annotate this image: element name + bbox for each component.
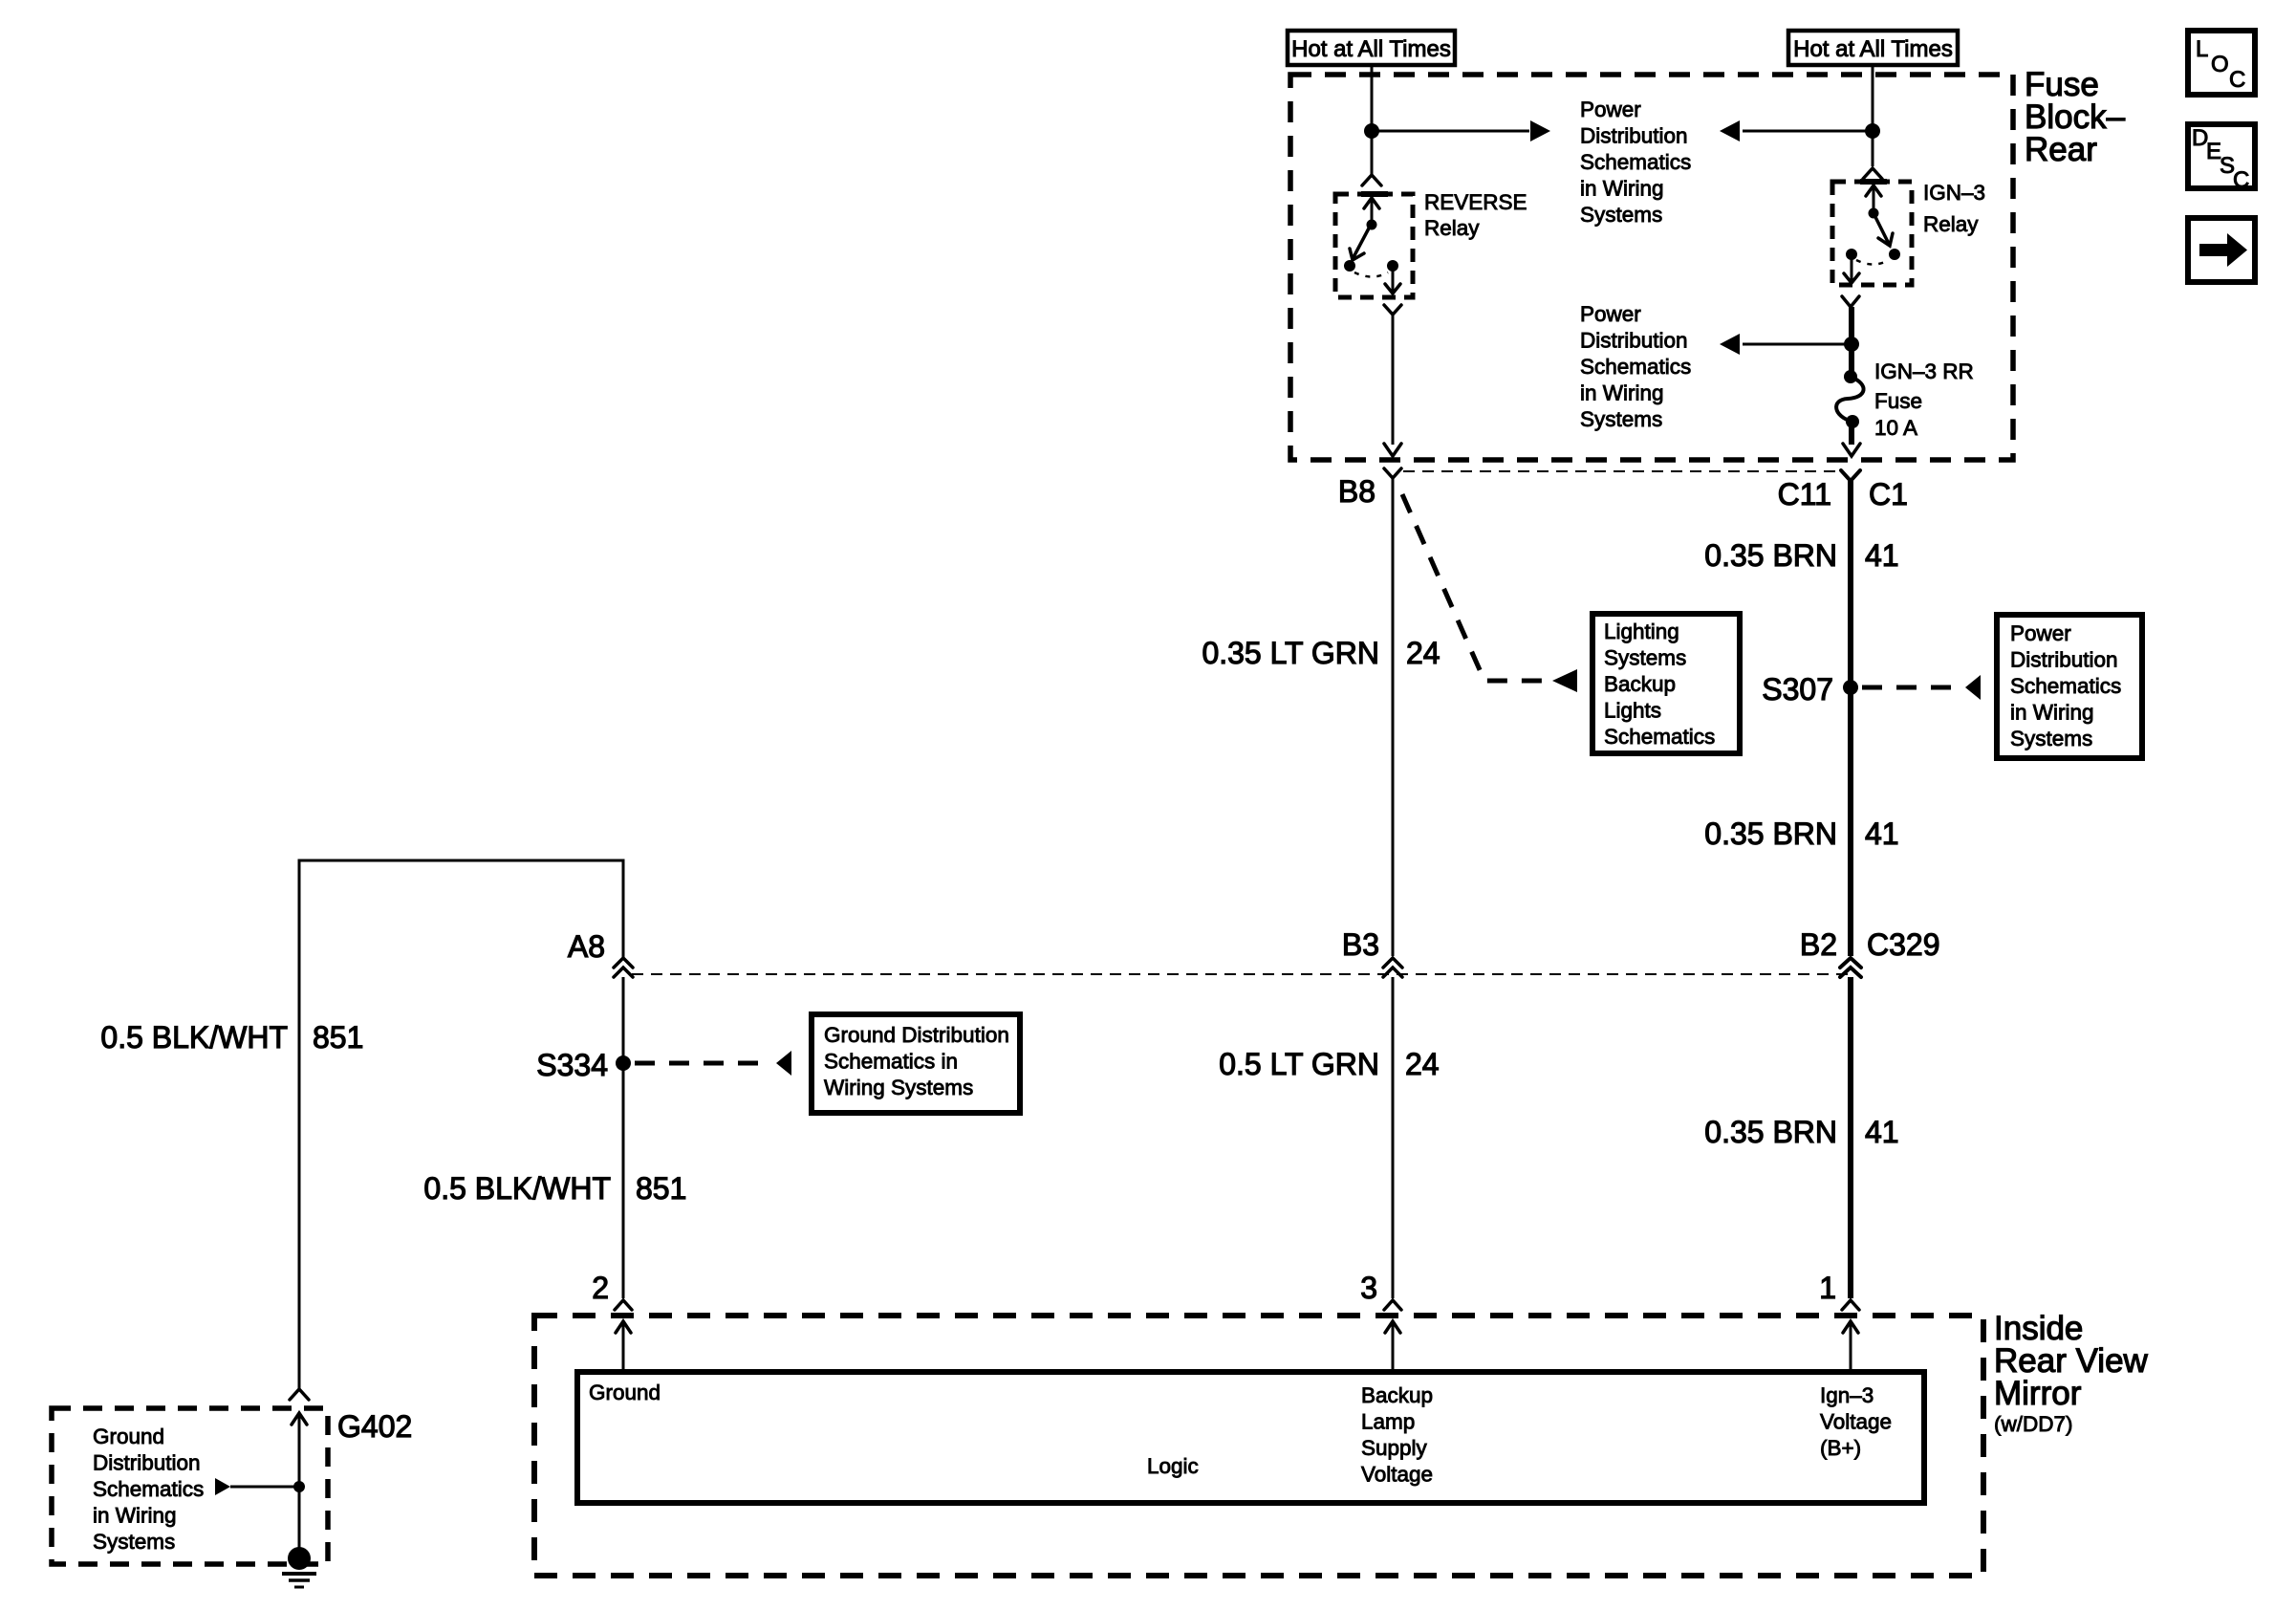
wire dashed leader S307 to Power Distribution box [1862, 685, 1961, 690]
wire leader to Ground Distribution reference text [230, 1486, 299, 1489]
svg-text:B8: B8 [1338, 474, 1375, 509]
svg-text:S307: S307 [1762, 672, 1833, 707]
text Power Distribution Schematics reference 2 [1580, 302, 1691, 431]
node junction at IGN-3 feed [1865, 123, 1880, 139]
svg-text:Systems: Systems [1580, 203, 1662, 227]
svg-text:Mirror: Mirror [1994, 1375, 2082, 1412]
svg-text:Schematics: Schematics [1604, 725, 1715, 749]
svg-text:Logic: Logic [1147, 1454, 1199, 1478]
wire A8 to S334 to pin 2 (0.5 BLK/WHT 851) [622, 977, 625, 1298]
svg-text:Relay: Relay [1923, 212, 1979, 236]
svg-text:IGN–3 RR: IGN–3 RR [1874, 359, 1974, 383]
component Inside Rear View Mirror dashed enclosure [534, 1316, 1983, 1576]
svg-text:41: 41 [1865, 1115, 1899, 1149]
svg-text:Power: Power [1580, 98, 1641, 121]
connector B8 female terminal [1384, 468, 1401, 478]
svg-text:Ground: Ground [93, 1425, 164, 1448]
node junction at reverse feed [1364, 123, 1379, 139]
box mirror internal Logic [577, 1372, 1924, 1503]
fuse block dashed enclosure Fuse Block-Rear [1290, 75, 2013, 460]
text Power Distribution Schematics reference 1 [1580, 98, 1691, 227]
wire pin 3 into mirror logic [1392, 1321, 1395, 1371]
svg-text:0.35 BRN: 0.35 BRN [1704, 538, 1837, 573]
svg-text:Schematics: Schematics [93, 1477, 204, 1501]
connector pin 3 terminal [1384, 1300, 1401, 1310]
svg-text:0.35 BRN: 0.35 BRN [1704, 816, 1837, 851]
connector pin 1 terminal [1842, 1300, 1859, 1310]
box Lighting Systems Backup Lights Schematics [1592, 614, 1740, 753]
svg-text:0.35 LT GRN: 0.35 LT GRN [1202, 636, 1379, 670]
svg-text:(B+): (B+) [1820, 1436, 1861, 1460]
svg-text:Power: Power [1580, 302, 1641, 326]
svg-text:Schematics: Schematics [1580, 150, 1691, 174]
label REVERSE Relay [1424, 190, 1527, 240]
svg-text:REVERSE: REVERSE [1424, 190, 1527, 214]
svg-text:L: L [2196, 36, 2208, 62]
label IGN-3 Relay [1923, 181, 1985, 236]
node splice S307 [1843, 680, 1858, 695]
svg-text:Systems: Systems [1604, 646, 1686, 670]
ground G402 dashed enclosure [52, 1408, 328, 1564]
svg-text:Power: Power [2010, 621, 2071, 645]
svg-text:Schematics in: Schematics in [824, 1050, 958, 1074]
wire pin 2 into mirror logic [622, 1321, 625, 1371]
svg-text:Distribution: Distribution [1580, 124, 1688, 148]
wire REVERSE relay output down to fuse block edge [1392, 315, 1395, 445]
svg-text:C: C [2233, 167, 2249, 193]
wire pin 1 into mirror logic [1850, 1321, 1852, 1371]
svg-text:Supply: Supply [1361, 1436, 1428, 1460]
connector chevron above REVERSE relay [1362, 175, 1381, 185]
svg-text:1: 1 [1819, 1271, 1836, 1305]
legend forward-arrow icon [2188, 218, 2255, 282]
svg-text:41: 41 [1865, 538, 1899, 573]
svg-text:C1: C1 [1869, 477, 1908, 511]
svg-text:0.5 LT GRN: 0.5 LT GRN [1219, 1047, 1379, 1081]
svg-text:B3: B3 [1342, 927, 1379, 962]
wire backup lamp feed B3 to pin 3 (0.5 LT GRN 24) [1392, 977, 1395, 1298]
svg-text:Ign–3: Ign–3 [1820, 1383, 1874, 1407]
svg-text:in Wiring: in Wiring [1580, 381, 1664, 405]
svg-text:Distribution: Distribution [2010, 648, 2118, 672]
relay IGN-3 Relay [1832, 182, 1912, 285]
svg-text:A8: A8 [568, 929, 605, 964]
wire IGN-3 voltage C1 to B2 (0.35 BRN 41) [1848, 481, 1853, 956]
svg-text:C329: C329 [1867, 927, 1940, 962]
svg-text:Systems: Systems [1580, 407, 1662, 431]
svg-text:in Wiring: in Wiring [93, 1504, 177, 1528]
node junction at G402 splice [293, 1481, 305, 1492]
svg-text:Relay: Relay [1424, 216, 1480, 240]
svg-text:O: O [2211, 52, 2229, 77]
svg-text:C: C [2229, 67, 2245, 93]
Hot at All Times box 2 [1788, 31, 1958, 65]
label IGN-3 RR Fuse 10 A [1874, 359, 1974, 440]
svg-text:41: 41 [1865, 816, 1899, 851]
svg-text:Systems: Systems [93, 1530, 175, 1554]
svg-text:Ground Distribution: Ground Distribution [824, 1023, 1009, 1047]
node splice S334 [616, 1055, 631, 1071]
Hot at All Times box 1 [1288, 31, 1455, 65]
svg-text:S334: S334 [536, 1048, 608, 1082]
wire fuse output to fuse block edge [1849, 422, 1854, 445]
connector chevron above G402 [290, 1389, 309, 1400]
ground symbol earth at G402 [282, 1547, 316, 1587]
wire IGN-3 voltage B2 to pin 1 (0.35 BRN 41) [1848, 977, 1853, 1298]
label Fuse Block-Rear [2025, 66, 2126, 168]
svg-text:10 A: 10 A [1874, 416, 1917, 440]
connector C1 female terminal [1841, 470, 1860, 481]
svg-text:851: 851 [313, 1020, 363, 1055]
legend LOC icon [2188, 31, 2255, 95]
box Ground Distribution Schematics in Wiring Systems (S334 ref) [812, 1014, 1020, 1113]
svg-text:(w/DD7): (w/DD7) [1994, 1412, 2073, 1436]
wire IGN-3 relay output down to fuse [1849, 307, 1854, 375]
svg-text:3: 3 [1360, 1271, 1377, 1305]
svg-text:Wiring Systems: Wiring Systems [824, 1076, 973, 1099]
connector Y below REVERSE relay [1384, 305, 1401, 315]
svg-text:Distribution: Distribution [1580, 329, 1688, 353]
svg-text:0.35 BRN: 0.35 BRN [1704, 1115, 1837, 1149]
svg-text:G402: G402 [337, 1409, 412, 1444]
wire branch to Power Distribution reference 2 [1743, 343, 1852, 346]
svg-text:Lighting: Lighting [1604, 620, 1679, 643]
svg-text:Voltage: Voltage [1361, 1463, 1433, 1487]
wire backup lamp feed B8 to B3 (0.35 LT GRN 24) [1392, 478, 1395, 956]
connector B3 double female terminal [1383, 958, 1402, 968]
svg-text:Schematics: Schematics [1580, 355, 1691, 379]
svg-text:Hot at All Times: Hot at All Times [1793, 36, 1953, 62]
svg-text:0.5 BLK/WHT: 0.5 BLK/WHT [100, 1020, 288, 1055]
svg-text:0.5 BLK/WHT: 0.5 BLK/WHT [423, 1171, 611, 1206]
svg-text:IGN–3: IGN–3 [1923, 181, 1985, 205]
svg-text:24: 24 [1405, 1047, 1440, 1081]
svg-text:C11: C11 [1778, 477, 1831, 511]
fuse IGN-3 RR Fuse 10 A [1836, 370, 1863, 428]
svg-text:Rear: Rear [2025, 131, 2097, 168]
wire connector line C329 (thin dashed) [632, 973, 1848, 975]
wire from Hot1 down into REVERSE relay [1371, 65, 1374, 176]
connector Y below IGN-3 relay [1842, 296, 1859, 307]
svg-text:24: 24 [1406, 636, 1440, 670]
wire branch to Power Distribution reference (left top) [1372, 130, 1529, 133]
label Ign-3 Voltage B+ (pin 1) [1820, 1383, 1892, 1460]
wire into G402 with up arrow [298, 1413, 301, 1558]
svg-text:Fuse: Fuse [1874, 389, 1922, 413]
wire from Hot2 down into IGN-3 relay [1872, 65, 1874, 166]
connector chevron above IGN-3 relay [1863, 168, 1882, 179]
wire ground loop from mirror pin 2 up over to G402 [299, 860, 623, 1388]
wire connector line C11 (thin dashed) [1403, 470, 1840, 472]
svg-text:Distribution: Distribution [93, 1451, 201, 1475]
svg-text:in Wiring: in Wiring [2010, 701, 2094, 725]
svg-text:Voltage: Voltage [1820, 1410, 1892, 1434]
label Backup Lamp Supply Voltage (pin 3) [1361, 1383, 1433, 1487]
svg-text:Lamp: Lamp [1361, 1410, 1415, 1434]
relay REVERSE Relay [1335, 194, 1413, 297]
svg-text:Ground: Ground [589, 1381, 661, 1404]
svg-text:B2: B2 [1800, 927, 1837, 962]
svg-text:Backup: Backup [1361, 1383, 1433, 1407]
label Inside Rear View Mirror (w/DD7) [1994, 1310, 2149, 1436]
node junction at fuse feed [1844, 337, 1859, 352]
svg-text:851: 851 [636, 1171, 686, 1206]
svg-text:Backup: Backup [1604, 672, 1676, 696]
text Ground Distribution Schematics in Wiring Systems (G402 ref) [93, 1425, 204, 1554]
legend DESC icon [2188, 124, 2255, 193]
wire dashed leader B8 to Lighting Systems box [1402, 494, 1549, 681]
wire dashed leader S334 to Ground Distribution box [635, 1061, 772, 1066]
wire branch to Power Distribution reference (right top) [1743, 130, 1873, 133]
box Power Distribution Schematics in Wiring Systems [1997, 615, 2142, 758]
connector B2 double female terminal [1840, 958, 1861, 968]
svg-text:2: 2 [592, 1271, 609, 1305]
connector pin 2 terminal [615, 1300, 632, 1310]
svg-text:Hot at All Times: Hot at All Times [1291, 36, 1451, 62]
svg-text:Systems: Systems [2010, 727, 2092, 751]
svg-text:Lights: Lights [1604, 699, 1661, 723]
svg-text:in Wiring: in Wiring [1580, 177, 1664, 201]
svg-text:Schematics: Schematics [2010, 674, 2121, 698]
connector A8 double female terminal [614, 958, 633, 968]
